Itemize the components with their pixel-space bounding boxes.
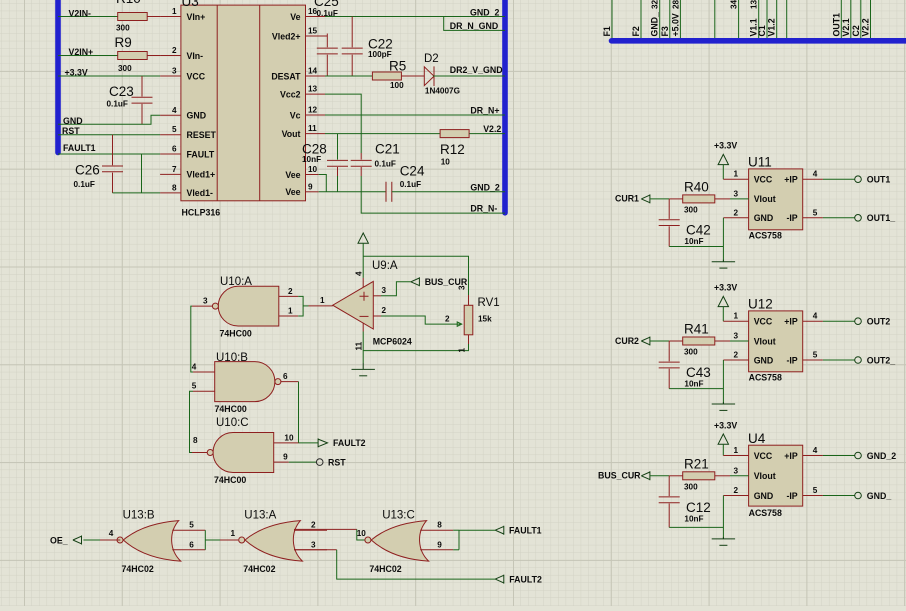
- tag FAULT1 (bottom): [495, 526, 504, 535]
- nand gate U10:B (74HC00): [215, 362, 275, 402]
- svg-text:DR2_V_GND: DR2_V_GND: [450, 65, 503, 75]
- svg-text:10: 10: [441, 158, 451, 167]
- U9 pin 11 stub: [362, 323, 364, 332]
- wire U4 pin 5 to terminal GND_: [803, 495, 823, 497]
- svg-text:RV1: RV1: [478, 297, 500, 309]
- svg-text:VIn-: VIn-: [187, 51, 204, 61]
- svg-text:11: 11: [308, 124, 317, 133]
- svg-text:ACS758: ACS758: [749, 230, 782, 240]
- svg-text:+IP: +IP: [784, 175, 798, 185]
- wire to top-right bus at x=738.6: [738, 0, 740, 38]
- svg-text:2: 2: [172, 46, 177, 55]
- U13:B output wire to OE_ tag: [100, 539, 120, 541]
- svg-text:DR_N+: DR_N+: [470, 106, 499, 116]
- svg-text:1: 1: [231, 529, 236, 538]
- svg-text:CUR2: CUR2: [615, 336, 639, 346]
- svg-text:C1: C1: [757, 25, 767, 36]
- wire +3.3V from bus to U3 pin 3: [58, 75, 160, 77]
- capacitor C23: [132, 97, 153, 103]
- svg-text:1: 1: [172, 7, 177, 16]
- power terminal +3.3V (U4): [718, 434, 728, 444]
- svg-text:OUT2: OUT2: [867, 317, 891, 327]
- svg-text:Ve: Ve: [290, 12, 300, 22]
- wire U13:C inputs to FAULT1 tag: [459, 529, 495, 531]
- svg-text:5: 5: [172, 125, 177, 134]
- svg-text:3: 3: [733, 466, 738, 475]
- svg-text:Vled1+: Vled1+: [187, 170, 216, 180]
- svg-text:74HC00: 74HC00: [220, 329, 252, 339]
- wire R12 to bus (V2.2): [469, 133, 505, 135]
- svg-text:F3: F3: [660, 26, 670, 36]
- svg-text:10nF: 10nF: [302, 155, 321, 164]
- svg-text:2: 2: [733, 351, 738, 360]
- wire power to U4 pin 1: [722, 444, 724, 455]
- svg-text:+5.0V: +5.0V: [670, 13, 680, 36]
- svg-text:F1: F1: [602, 26, 612, 36]
- U3 pin 7 stub (Vled1+): [160, 173, 181, 175]
- svg-text:U13:A: U13:A: [244, 509, 276, 521]
- current sensor U11 body (ACS758): [749, 169, 803, 230]
- svg-text:3: 3: [382, 286, 387, 295]
- svg-text:Vcc2: Vcc2: [280, 89, 301, 99]
- wire to top-right bus at x=680.4 net +5.0V: [679, 0, 681, 38]
- U9 minus input marker: [360, 315, 369, 317]
- svg-text:C25: C25: [314, 0, 339, 9]
- terminal OUT1_: [855, 215, 862, 222]
- svg-text:+3.3V: +3.3V: [714, 283, 737, 293]
- svg-text:C2: C2: [851, 25, 861, 36]
- svg-text:13: 13: [308, 85, 318, 94]
- svg-text:32: 32: [651, 0, 660, 9]
- svg-text:VCC: VCC: [754, 451, 773, 461]
- wire to top-right bus at x=659.7 net GND_: [659, 0, 661, 38]
- nand gate U10:A (74HC00): [218, 286, 279, 326]
- svg-text:2: 2: [733, 208, 738, 217]
- U10:A input stubs pins 2,1 and tie bracket: [279, 295, 298, 297]
- svg-text:GND: GND: [754, 491, 774, 501]
- wire U13:A output to U13:B inputs: [205, 539, 220, 541]
- svg-text:GND: GND: [187, 111, 207, 121]
- svg-text:3: 3: [311, 540, 316, 549]
- svg-text:R12: R12: [440, 142, 465, 157]
- svg-text:74HC02: 74HC02: [122, 564, 154, 574]
- svg-text:F2: F2: [631, 26, 641, 36]
- wire to top-right bus at x=850.8 net V2.1: [850, 0, 852, 38]
- wire D2 to bus (DR2_V_GND): [433, 75, 505, 77]
- RV1 wiper arrow: [453, 322, 462, 326]
- svg-text:6: 6: [189, 540, 194, 549]
- svg-text:V2.2: V2.2: [483, 124, 501, 134]
- svg-text:4: 4: [813, 170, 818, 179]
- wire U13:A pin 3 to FAULT2 tag: [294, 549, 337, 551]
- wire power arrow to U9 pin 4: [362, 243, 364, 278]
- svg-text:R41: R41: [684, 322, 709, 337]
- svg-text:OUT1_: OUT1_: [867, 213, 895, 223]
- svg-text:R9: R9: [115, 35, 132, 50]
- svg-text:8: 8: [193, 436, 198, 445]
- wire U3 pin 11 to R12: [325, 133, 440, 135]
- power bus (right of U3, vertical): [502, 0, 508, 213]
- wire R10 to U3 pin 1: [147, 16, 160, 18]
- U10:A output bubble: [212, 303, 218, 309]
- wire V2IN+ from bus to R9: [58, 55, 118, 57]
- current sensor U4 body (ACS758): [749, 445, 803, 506]
- svg-text:FAULT: FAULT: [187, 149, 215, 159]
- U10:C output pin 8 stub: [192, 452, 207, 454]
- op-coupler U3 body (HCLP316): [181, 5, 306, 201]
- wire to top-right bus at x=612 net F1: [611, 0, 613, 38]
- svg-text:300: 300: [118, 64, 132, 73]
- svg-text:9: 9: [437, 540, 442, 549]
- resistor R9: [118, 52, 148, 60]
- svg-text:Vc: Vc: [290, 110, 301, 120]
- wire U3 pin 10 jog to pin 9 net: [319, 175, 327, 192]
- svg-text:-IP: -IP: [786, 355, 797, 365]
- svg-text:R5: R5: [389, 59, 406, 74]
- svg-text:0.1uF: 0.1uF: [317, 9, 338, 18]
- U3 pin 3 stub (VCC): [160, 75, 181, 77]
- svg-text:MCP6024: MCP6024: [373, 337, 412, 347]
- tag OE_: [73, 536, 82, 545]
- svg-text:C43: C43: [686, 365, 711, 380]
- wire C12 bottom to ground net: [669, 526, 723, 528]
- svg-text:Vled2+: Vled2+: [272, 31, 301, 41]
- U3 pin 8 stub (Vled1-): [160, 192, 181, 194]
- svg-text:VCC: VCC: [754, 175, 773, 185]
- U3 pin 5 stub (RESET): [160, 134, 181, 136]
- wire to top-right bus at x=714.8: [714, 0, 716, 38]
- capacitor C22: [342, 48, 363, 54]
- power terminal +3.3V (U11): [718, 154, 728, 164]
- svg-text:Vout: Vout: [282, 129, 301, 139]
- capacitor C24 (series): [386, 182, 392, 202]
- svg-text:U13:B: U13:B: [123, 509, 155, 521]
- svg-text:5: 5: [813, 351, 818, 360]
- svg-text:2: 2: [382, 306, 387, 315]
- svg-text:300: 300: [684, 205, 698, 214]
- svg-text:R21: R21: [684, 457, 709, 472]
- resistor R41: [683, 337, 715, 345]
- wire junction to R21: [669, 475, 683, 477]
- U13:B input stubs: [172, 529, 205, 531]
- wire R40 to U11 pin 3: [715, 198, 730, 200]
- svg-text:0.1uF: 0.1uF: [400, 180, 421, 189]
- current sensor U12 body (ACS758): [749, 311, 803, 372]
- svg-text:3: 3: [458, 285, 467, 290]
- wire FAULT1 from bus to U3 pin 6: [58, 153, 160, 155]
- wire to top-right bus at x=841.3 net OUT1: [840, 0, 842, 38]
- svg-text:CUR1: CUR1: [615, 194, 639, 204]
- svg-text:+3.3V: +3.3V: [714, 141, 737, 151]
- svg-text:U10:A: U10:A: [220, 276, 252, 288]
- wire U12 pin 2 to ground: [723, 359, 748, 361]
- U13:C input tie bracket: [458, 530, 460, 550]
- svg-text:Vee: Vee: [285, 170, 300, 180]
- svg-text:3: 3: [203, 297, 208, 306]
- wire U12 pin 4 to terminal OUT2: [803, 320, 823, 322]
- wire U10:C pin 10 to FAULT2 tag: [299, 442, 319, 444]
- svg-text:4: 4: [172, 106, 177, 115]
- capacitor C28: [327, 160, 348, 166]
- svg-text:4: 4: [813, 312, 818, 321]
- U13:A input stubs: [294, 529, 327, 531]
- svg-text:12: 12: [308, 106, 318, 115]
- svg-text:ACS758: ACS758: [749, 373, 782, 383]
- wire junction FAULT1 down to pin-8 net: [141, 154, 143, 193]
- wire C43 bottom to ground net: [669, 388, 723, 390]
- svg-text:U10:C: U10:C: [216, 417, 249, 429]
- svg-text:4: 4: [355, 271, 364, 276]
- wire U12 pin 5 to terminal OUT2_: [803, 359, 823, 361]
- U3 pin 12 stub (Vc): [306, 114, 326, 116]
- svg-text:OUT1: OUT1: [831, 13, 841, 37]
- power terminal +3.3V (U12): [718, 296, 728, 306]
- svg-text:VIout: VIout: [754, 471, 776, 481]
- U3 pin 15 stub (Vled2+): [306, 35, 328, 37]
- svg-text:FAULT2: FAULT2: [509, 574, 542, 584]
- svg-text:10: 10: [308, 165, 318, 174]
- svg-text:+3.3V: +3.3V: [714, 421, 737, 431]
- ground symbol below U4: [712, 537, 735, 545]
- svg-text:C42: C42: [686, 223, 711, 238]
- svg-text:VCC: VCC: [754, 317, 773, 327]
- svg-text:FAULT2: FAULT2: [333, 438, 366, 448]
- svg-text:3: 3: [733, 332, 738, 341]
- svg-text:C26: C26: [75, 163, 100, 178]
- op-amp U9:A body (MCP6024): [333, 281, 374, 329]
- wire R41 to U12 pin 3: [715, 340, 730, 342]
- wire U11 pin 2 to ground: [723, 217, 748, 219]
- svg-text:10nF: 10nF: [684, 237, 703, 246]
- U10:C input stubs pins 10,9: [274, 442, 299, 444]
- svg-text:OUT2_: OUT2_: [867, 355, 895, 365]
- wire to top-right bus at x=758.7 net V1.1: [758, 0, 760, 38]
- svg-text:FAULT1: FAULT1: [63, 143, 96, 153]
- svg-text:1: 1: [733, 312, 738, 321]
- svg-text:C12: C12: [686, 500, 711, 515]
- svg-text:U13:C: U13:C: [382, 509, 415, 521]
- U3 pin 1 stub (VIn+): [160, 16, 181, 18]
- wire U10:A output down to U10:B pin 4: [191, 306, 193, 372]
- svg-text:GND_2: GND_2: [470, 7, 499, 17]
- diode D2 1N4007G: [424, 66, 434, 86]
- U10:B input stubs pins 4,5: [193, 371, 215, 373]
- wire junction to R40: [669, 198, 683, 200]
- wire R5 to D2: [401, 75, 424, 77]
- svg-text:1N4007G: 1N4007G: [425, 87, 460, 96]
- U3 pin 13 stub (Vcc2): [306, 93, 326, 95]
- U13:A output bubble: [239, 537, 245, 543]
- wire U13:C output stub: [365, 539, 369, 541]
- svg-text:1: 1: [733, 446, 738, 455]
- svg-text:HCLP316: HCLP316: [182, 208, 221, 218]
- svg-text:C21: C21: [375, 142, 400, 157]
- U13:C input stubs: [420, 529, 453, 531]
- ground symbol below U11: [712, 260, 735, 268]
- capacitor C12: [668, 476, 670, 496]
- svg-text:3: 3: [733, 189, 738, 198]
- svg-text:U4: U4: [748, 431, 766, 446]
- resistor R5: [372, 72, 401, 80]
- U3 pin 6 stub (FAULT): [160, 153, 181, 155]
- wire DR_N_GND branch: [444, 17, 505, 31]
- capacitor C25: [317, 48, 338, 54]
- U10:B output pin 6 stub: [281, 381, 299, 383]
- svg-text:GND_2: GND_2: [470, 182, 499, 192]
- svg-text:74HC02: 74HC02: [243, 564, 275, 574]
- svg-text:DR_N-: DR_N-: [470, 204, 497, 214]
- wire C26 bottom to U3 pin 8: [113, 192, 161, 194]
- svg-text:15: 15: [308, 27, 318, 36]
- svg-text:V2IN-: V2IN-: [69, 8, 92, 18]
- svg-text:+IP: +IP: [784, 451, 798, 461]
- svg-text:74HC00: 74HC00: [215, 404, 247, 414]
- svg-text:5: 5: [813, 208, 818, 217]
- svg-text:U3: U3: [182, 0, 199, 9]
- svg-text:10nF: 10nF: [684, 380, 703, 389]
- U13:B output bubble: [117, 537, 123, 543]
- wire to top-right bus at x=641 net F2: [640, 0, 642, 38]
- svg-text:28: 28: [671, 0, 680, 9]
- ground symbol below U12: [712, 402, 735, 410]
- wire junction to R41: [669, 340, 683, 342]
- svg-text:V2.1: V2.1: [841, 18, 851, 36]
- wire RST from bus to U3 pin 5: [58, 134, 160, 136]
- resistor R12: [440, 130, 469, 138]
- svg-text:10nF: 10nF: [684, 514, 703, 523]
- svg-text:5: 5: [192, 382, 197, 391]
- svg-text:4: 4: [813, 446, 818, 455]
- wire to top-right bus at x=786.7: [786, 0, 788, 38]
- capacitor C21 (in series on DR_N- drop): [351, 160, 372, 166]
- U9 pin 3 stub and wire to BUS_CUR tag: [373, 295, 381, 297]
- U10:B output bubble: [275, 379, 281, 385]
- terminal RST: [316, 459, 323, 466]
- svg-text:U9:A: U9:A: [372, 260, 398, 272]
- wire U3 pin 13 down (DR_N- net): [325, 94, 361, 153]
- svg-text:RST: RST: [328, 457, 346, 467]
- svg-text:U12: U12: [748, 297, 773, 312]
- nor gate U13:B (74HC02): [123, 521, 180, 562]
- svg-text:DESAT: DESAT: [271, 71, 301, 81]
- wire to top-right bus at x=860.8 net C2: [860, 0, 862, 38]
- svg-text:2: 2: [288, 287, 293, 296]
- potentiometer RV1 body: [464, 305, 473, 335]
- svg-text:GND: GND: [754, 213, 774, 223]
- svg-text:1: 1: [320, 296, 325, 305]
- wire power to U12 pin 1: [722, 307, 724, 322]
- U3 pin 2 stub (VIn-): [160, 55, 181, 57]
- U10:C output bubble: [207, 450, 213, 456]
- svg-text:-IP: -IP: [786, 213, 797, 223]
- U10:A output pin 3 stub: [192, 305, 212, 307]
- nor gate U13:A (74HC02): [245, 521, 302, 562]
- svg-text:OUT1: OUT1: [867, 175, 891, 185]
- U13:B input tie bracket: [204, 530, 206, 550]
- wire U3 pin 9 to C24: [319, 191, 386, 193]
- wire V2IN- from bus to R10: [58, 16, 118, 18]
- svg-text:V1.2: V1.2: [767, 18, 777, 36]
- svg-text:5: 5: [189, 521, 194, 530]
- svg-text:GND_: GND_: [650, 12, 660, 37]
- svg-text:1: 1: [733, 170, 738, 179]
- svg-text:8: 8: [172, 183, 177, 192]
- U3 pin 10 stub (Vee): [306, 174, 319, 176]
- tag BUS_CUR (to U9 pin 3): [411, 277, 420, 286]
- svg-text:OE_: OE_: [50, 535, 68, 545]
- U13:C output bubble: [365, 537, 371, 543]
- nand gate U10:C (74HC00): [213, 433, 274, 473]
- wire U10:B output down to FAULT2 row: [298, 382, 300, 443]
- wire CUR1 tag to junction: [650, 198, 669, 200]
- svg-text:GND: GND: [63, 116, 83, 126]
- svg-text:34: 34: [730, 0, 739, 9]
- svg-text:11: 11: [355, 341, 364, 350]
- svg-text:14: 14: [308, 67, 318, 76]
- svg-text:VIout: VIout: [754, 194, 776, 204]
- svg-text:3: 3: [172, 67, 177, 76]
- U9 pin 4 stub: [362, 278, 364, 288]
- wire CUR2 tag to junction: [650, 340, 669, 342]
- svg-text:U11: U11: [748, 155, 772, 170]
- svg-text:9: 9: [308, 182, 313, 191]
- wire U13:A pin 2 to U13:C output: [294, 528, 357, 530]
- wire U11 pin 5 to terminal OUT1_: [803, 217, 823, 219]
- power bus (left vertical): [55, 0, 61, 153]
- svg-text:0.1uF: 0.1uF: [107, 100, 128, 109]
- svg-text:C23: C23: [109, 84, 134, 99]
- svg-text:2: 2: [445, 315, 450, 324]
- svg-text:FAULT1: FAULT1: [509, 526, 542, 536]
- svg-text:9: 9: [283, 453, 288, 462]
- svg-text:-IP: -IP: [786, 491, 797, 501]
- svg-text:+3.3V: +3.3V: [65, 68, 88, 78]
- svg-text:ACS758: ACS758: [749, 508, 782, 518]
- svg-text:D2: D2: [424, 53, 439, 65]
- svg-text:2: 2: [311, 521, 316, 530]
- wire U11 pin 4 to terminal OUT1: [803, 178, 823, 180]
- svg-text:RESET: RESET: [187, 130, 217, 140]
- wire BUS_CUR tag to junction: [650, 475, 669, 477]
- capacitor C26: [102, 166, 123, 172]
- svg-text:4: 4: [192, 363, 197, 372]
- svg-text:100: 100: [390, 81, 404, 90]
- svg-text:1: 1: [458, 348, 467, 353]
- tag FAULT2 (mid): [318, 438, 327, 447]
- wire U4 pin 4 to terminal GND_2: [803, 455, 823, 457]
- terminal OUT2_: [855, 357, 862, 364]
- wire to top-right bus at x=767 net C1: [766, 0, 768, 38]
- wire U3 pin 12 to bus (DR_N+): [325, 114, 505, 116]
- RV1 pin 3 (top) wire to +3.3V net: [468, 295, 470, 305]
- U3 pin 11 stub (Vout): [306, 133, 326, 135]
- power terminal +3.3V above U9: [358, 233, 368, 243]
- capacitor C42: [668, 199, 670, 219]
- terminal GND_2: [855, 452, 862, 459]
- svg-text:300: 300: [116, 24, 130, 33]
- svg-text:C24: C24: [400, 164, 425, 179]
- U9 plus input marker: [360, 292, 369, 301]
- capacitor C43: [668, 341, 670, 361]
- svg-text:VIn+: VIn+: [187, 12, 206, 22]
- U3 pin 4 stub (GND): [160, 114, 181, 116]
- svg-text:BUS_CUR: BUS_CUR: [598, 471, 641, 481]
- U9 pin 2 stub and wire to RV1 wiper: [373, 315, 381, 317]
- svg-text:6: 6: [172, 145, 177, 154]
- svg-text:+IP: +IP: [784, 317, 798, 327]
- svg-text:VCC: VCC: [187, 71, 206, 81]
- svg-text:15k: 15k: [478, 315, 492, 324]
